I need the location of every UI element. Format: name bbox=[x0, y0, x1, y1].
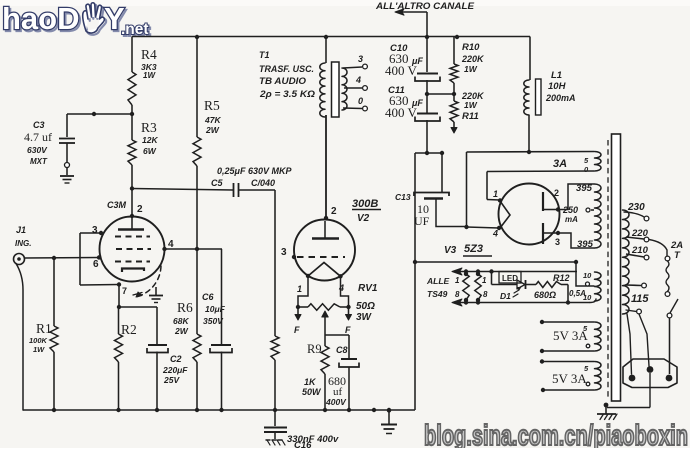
svg-text:mA: mA bbox=[565, 215, 578, 224]
svg-text:ALLE: ALLE bbox=[426, 276, 450, 286]
svg-text:5V 3A: 5V 3A bbox=[552, 371, 587, 386]
svg-text:C6: C6 bbox=[202, 292, 214, 302]
svg-text:10μF: 10μF bbox=[205, 304, 226, 314]
svg-text:3A: 3A bbox=[553, 158, 567, 170]
svg-text:R3: R3 bbox=[141, 120, 157, 135]
svg-text:C5: C5 bbox=[211, 178, 223, 188]
svg-text:210: 210 bbox=[631, 245, 649, 256]
svg-text:TRASF. USC.: TRASF. USC. bbox=[259, 64, 314, 74]
svg-text:T1: T1 bbox=[259, 50, 270, 60]
svg-text:C13: C13 bbox=[395, 192, 411, 202]
svg-text:10H: 10H bbox=[548, 81, 567, 92]
svg-text:R4: R4 bbox=[141, 47, 157, 62]
svg-text:12K: 12K bbox=[142, 135, 158, 145]
svg-text:R1: R1 bbox=[36, 321, 52, 336]
svg-text:47K: 47K bbox=[204, 115, 221, 125]
svg-text:4: 4 bbox=[492, 229, 498, 239]
svg-text:3: 3 bbox=[555, 237, 560, 247]
svg-text:250: 250 bbox=[562, 205, 578, 215]
svg-text:2W: 2W bbox=[174, 326, 189, 336]
svg-text:TB AUDIO: TB AUDIO bbox=[259, 76, 306, 86]
svg-text:50W: 50W bbox=[302, 387, 322, 397]
svg-text:1W: 1W bbox=[464, 100, 478, 110]
svg-text:630V: 630V bbox=[27, 145, 48, 155]
svg-text:C3M: C3M bbox=[107, 200, 127, 210]
svg-text:L1: L1 bbox=[551, 70, 562, 81]
svg-text:5Z3: 5Z3 bbox=[464, 243, 483, 255]
svg-text:7: 7 bbox=[122, 286, 127, 296]
svg-text:R9: R9 bbox=[307, 342, 322, 356]
svg-text:6W: 6W bbox=[143, 146, 157, 156]
svg-text:25V: 25V bbox=[163, 375, 180, 385]
svg-text:3: 3 bbox=[358, 54, 363, 64]
svg-text:1W: 1W bbox=[33, 345, 45, 354]
svg-text:6: 6 bbox=[93, 259, 99, 270]
svg-text:F: F bbox=[294, 325, 300, 335]
svg-text:2: 2 bbox=[554, 188, 559, 198]
svg-text:200mA: 200mA bbox=[545, 93, 576, 103]
svg-text:3: 3 bbox=[281, 247, 287, 258]
svg-text:haoD: haoD bbox=[2, 1, 80, 36]
svg-text:10: 10 bbox=[583, 271, 592, 280]
svg-text:R10: R10 bbox=[462, 42, 480, 53]
svg-text:400 V: 400 V bbox=[385, 105, 418, 120]
svg-text:R6: R6 bbox=[177, 300, 193, 315]
svg-text:C/040: C/040 bbox=[251, 178, 275, 188]
svg-text:400 V: 400 V bbox=[385, 63, 418, 78]
svg-text:F: F bbox=[345, 325, 351, 335]
svg-text:R11: R11 bbox=[462, 111, 479, 122]
svg-text:C16: C16 bbox=[294, 440, 312, 448]
svg-text:220μF: 220μF bbox=[162, 365, 188, 375]
svg-text:D1: D1 bbox=[500, 291, 511, 301]
svg-text:2W: 2W bbox=[205, 125, 220, 135]
svg-text:50Ω: 50Ω bbox=[356, 301, 375, 312]
svg-text:1: 1 bbox=[455, 276, 460, 285]
svg-text:RV1: RV1 bbox=[358, 283, 378, 294]
svg-text:2ρ = 3.5 KΩ: 2ρ = 3.5 KΩ bbox=[259, 89, 316, 100]
svg-text:100K: 100K bbox=[29, 336, 48, 345]
svg-text:4.7 uf: 4.7 uf bbox=[24, 130, 52, 144]
svg-text:ALL'ALTRO CANALE: ALL'ALTRO CANALE bbox=[375, 1, 475, 12]
svg-text:TS49: TS49 bbox=[427, 289, 448, 299]
svg-text:blog.sina.com.cn/piaoboxin: blog.sina.com.cn/piaoboxin bbox=[424, 420, 688, 448]
svg-text:8: 8 bbox=[455, 290, 460, 299]
svg-text:.net: .net bbox=[121, 21, 149, 38]
svg-text:680Ω: 680Ω bbox=[534, 290, 556, 300]
svg-text:C2: C2 bbox=[170, 354, 182, 364]
svg-text:1: 1 bbox=[482, 276, 487, 285]
svg-text:2: 2 bbox=[137, 204, 143, 215]
svg-text:1W: 1W bbox=[143, 71, 156, 80]
svg-text:230: 230 bbox=[627, 202, 645, 213]
svg-text:350V: 350V bbox=[203, 316, 224, 326]
svg-text:1: 1 bbox=[493, 189, 498, 199]
svg-text:68K: 68K bbox=[173, 316, 189, 326]
svg-text:1K: 1K bbox=[304, 377, 317, 387]
svg-text:3: 3 bbox=[92, 225, 98, 236]
svg-text:1W: 1W bbox=[464, 64, 478, 74]
svg-text:MXT: MXT bbox=[30, 157, 48, 166]
svg-text:300B: 300B bbox=[352, 198, 378, 210]
svg-text:1: 1 bbox=[297, 284, 302, 294]
svg-text:220K: 220K bbox=[461, 54, 485, 64]
svg-text:4: 4 bbox=[355, 75, 361, 85]
svg-text:R12: R12 bbox=[553, 273, 570, 283]
svg-text:395: 395 bbox=[577, 239, 594, 250]
svg-text:LED: LED bbox=[502, 274, 518, 283]
svg-text:0: 0 bbox=[358, 96, 363, 106]
svg-text:400V: 400V bbox=[325, 397, 347, 407]
svg-text:0,25μF 630V MKP: 0,25μF 630V MKP bbox=[217, 166, 292, 176]
svg-text:ING.: ING. bbox=[15, 239, 31, 248]
svg-text:2: 2 bbox=[331, 206, 337, 217]
svg-text:4: 4 bbox=[168, 239, 174, 250]
svg-text:V3: V3 bbox=[444, 245, 457, 256]
svg-text:10: 10 bbox=[583, 293, 592, 302]
svg-text:R2: R2 bbox=[121, 322, 137, 337]
svg-text:UF: UF bbox=[414, 214, 430, 228]
svg-text:J1: J1 bbox=[16, 225, 26, 235]
svg-text:V2: V2 bbox=[357, 213, 370, 224]
svg-text:3W: 3W bbox=[356, 312, 373, 323]
svg-text:395: 395 bbox=[576, 183, 593, 194]
svg-text:115: 115 bbox=[631, 293, 649, 305]
svg-text:R5: R5 bbox=[204, 98, 220, 113]
svg-text:8: 8 bbox=[483, 290, 488, 299]
svg-text:C3: C3 bbox=[33, 120, 45, 130]
svg-text:C8: C8 bbox=[336, 345, 348, 355]
